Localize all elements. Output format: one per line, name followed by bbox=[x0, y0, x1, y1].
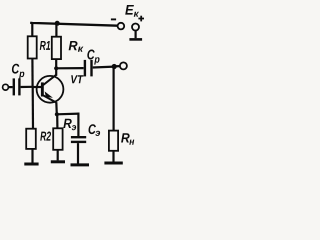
wire Rn stem bbox=[112, 67, 114, 131]
wire emitter vertical bbox=[55, 102, 58, 114]
battery Ek positive terminal bbox=[132, 24, 139, 31]
resistor RK bbox=[52, 37, 61, 59]
plus sign bbox=[138, 16, 144, 22]
wire top supply rail bbox=[31, 22, 117, 26]
resistor R2 bbox=[26, 129, 36, 149]
minus sign bbox=[111, 18, 116, 20]
ground under positive terminal bbox=[129, 38, 142, 41]
node collector/output junction dot bbox=[54, 66, 58, 70]
wire positive terminal stem bbox=[135, 31, 137, 39]
capacitor Ce bbox=[71, 113, 100, 164]
ground under Rn bbox=[104, 162, 122, 165]
resistor R1 bbox=[28, 36, 37, 58]
wire R2 bottom to ground bbox=[31, 149, 33, 163]
wire emitter node to Ce bbox=[57, 112, 80, 115]
resistor Re bbox=[53, 128, 62, 150]
ground under Ce bbox=[71, 163, 90, 166]
ground under Re bbox=[51, 160, 65, 163]
wire output node to terminal bbox=[114, 65, 119, 68]
wire Re to ground bbox=[57, 150, 59, 161]
battery Ek negative terminal bbox=[118, 23, 125, 30]
wire base node to transistor base bbox=[33, 86, 41, 88]
node output junction dot bbox=[112, 64, 117, 69]
wire base node to R2 bbox=[32, 87, 34, 129]
wire RK top lead bbox=[55, 23, 57, 37]
wire collector node to Cp output bbox=[56, 67, 83, 69]
wire Cp output to output node bbox=[93, 65, 115, 68]
capacitor Cp input bbox=[12, 64, 24, 96]
wire R1 bottom lead to base node bbox=[31, 59, 33, 87]
ground under R2 bbox=[24, 163, 38, 166]
node emitter junction dot bbox=[55, 112, 59, 116]
terminal output bbox=[120, 62, 127, 69]
wire Rn to ground bbox=[112, 151, 114, 162]
transistor VT bbox=[37, 75, 84, 103]
wire Re top lead bbox=[56, 114, 58, 128]
wire Cp to base node bbox=[21, 86, 33, 88]
label Ek bbox=[125, 5, 134, 15]
wire RK bottom to collector bbox=[55, 59, 57, 76]
resistor Rn bbox=[109, 131, 118, 151]
node junction dot above RK bbox=[55, 21, 60, 26]
wire input terminal to Cp bbox=[9, 86, 13, 88]
capacitor Cp output bbox=[85, 50, 100, 77]
wire R1 top lead bbox=[31, 22, 33, 36]
terminal input bbox=[3, 84, 9, 90]
